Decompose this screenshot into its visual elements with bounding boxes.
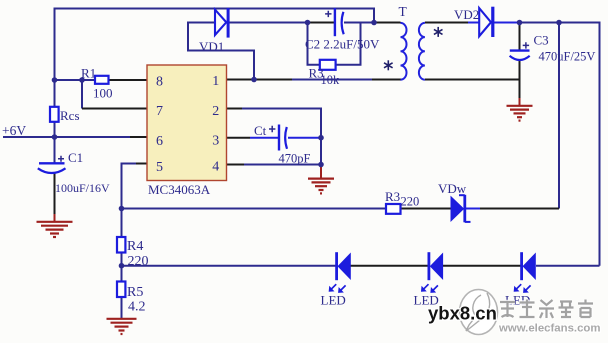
IC U1 MC34063A body — [147, 65, 227, 181]
wire VD1 cathode to C2 — [229, 22, 307, 24]
svg-text:6: 6 — [156, 134, 163, 149]
resistor R5 — [117, 282, 125, 298]
svg-text:C3: C3 — [534, 33, 549, 48]
svg-text:R4: R4 — [127, 239, 143, 254]
resistor Rcs — [50, 107, 59, 122]
capacitor C2 — [325, 8, 344, 36]
svg-text:2: 2 — [212, 104, 219, 119]
svg-text:www.elecfans.com: www.elecfans.com — [498, 323, 601, 335]
ground under C3 — [507, 106, 533, 121]
wire pin 7 branch — [81, 80, 83, 109]
svg-text:Rcs: Rcs — [60, 108, 80, 123]
wire LED row — [122, 265, 337, 267]
svg-text:LED: LED — [321, 293, 346, 308]
transformer T secondary winding — [419, 23, 425, 80]
LED D3 — [515, 252, 536, 292]
svg-text:R3: R3 — [385, 189, 400, 204]
svg-text:220: 220 — [128, 254, 149, 269]
svg-text:C2 2.2uF/50V: C2 2.2uF/50V — [305, 37, 380, 52]
wire primary top — [374, 22, 401, 24]
diode VD2 — [479, 7, 493, 37]
wire secondary top to VD2 — [425, 22, 468, 24]
wire left rail — [54, 8, 56, 138]
wire pin 3 to Ct — [226, 137, 250, 139]
resistor R4 — [117, 237, 125, 253]
svg-text:T: T — [399, 4, 408, 19]
ground under C1 — [37, 222, 73, 237]
svg-text:R5: R5 — [127, 285, 143, 300]
wire pin 5 to node — [135, 163, 147, 165]
svg-text:470uF/25V: 470uF/25V — [539, 50, 596, 64]
wire VD1 clamp loop — [188, 23, 254, 80]
wire C3 node to right rail — [519, 23, 600, 266]
svg-text:3: 3 — [212, 134, 219, 149]
wire secondary bottom — [425, 79, 519, 81]
wire pin 1 row to transformer primary bottom — [226, 79, 292, 81]
capacitor C3 — [510, 42, 530, 60]
svg-text:+6V: +6V — [2, 123, 26, 138]
svg-text:8: 8 — [156, 75, 163, 90]
wire left node column x121 — [121, 209, 123, 319]
wire C3 bottom lead — [519, 59, 521, 98]
svg-text:MC34063A: MC34063A — [148, 182, 211, 197]
svg-text:10k: 10k — [321, 73, 341, 87]
wire C1 bottom lead — [54, 172, 56, 214]
wire Ct node down to pin4 row — [320, 138, 322, 165]
svg-text:4.2: 4.2 — [128, 300, 146, 315]
svg-text:R1: R1 — [81, 66, 96, 81]
secondary dot mark — [434, 27, 443, 37]
watermark logo circle — [460, 290, 498, 335]
capacitor C1 — [38, 156, 66, 173]
wire top rail — [55, 9, 375, 23]
svg-text:VD1: VD1 — [199, 39, 224, 54]
ground under R5 — [107, 319, 137, 334]
svg-text:C1: C1 — [68, 150, 83, 165]
wire R2 parallel loop — [308, 23, 321, 65]
svg-text:VDw: VDw — [438, 181, 467, 196]
svg-text:470pF: 470pF — [279, 152, 311, 166]
svg-text:100: 100 — [93, 86, 113, 101]
capacitor Ct — [269, 125, 287, 151]
svg-text:220: 220 — [401, 195, 420, 209]
svg-text:Ct: Ct — [254, 123, 267, 138]
wire ground stem pin4 node — [320, 165, 322, 179]
wire Ct right plate to node — [288, 137, 321, 139]
svg-text:100uF/16V: 100uF/16V — [55, 181, 110, 195]
wire C2 right to primary node — [344, 22, 374, 24]
wire +6V row to pin 6 — [3, 136, 130, 138]
diode VDw zener — [451, 195, 471, 223]
svg-text:4: 4 — [212, 160, 219, 175]
svg-text:7: 7 — [156, 104, 163, 119]
wire C1 top lead — [54, 137, 56, 163]
diode VD1 — [215, 8, 228, 38]
LED D1 — [330, 252, 351, 292]
resistor R2 10k — [320, 60, 336, 70]
primary dot mark — [384, 60, 393, 70]
wire R1 row pin 8 — [55, 79, 97, 81]
wire VDw row — [122, 208, 387, 210]
wire C3 top lead — [519, 23, 521, 51]
junction node dots — [52, 20, 562, 269]
wire pin 4 — [226, 164, 244, 166]
resistor R1 — [95, 76, 109, 84]
svg-text:VD2: VD2 — [454, 7, 479, 22]
ground under pin4 node — [308, 179, 334, 194]
svg-text:5: 5 — [156, 160, 163, 175]
svg-text:ybx8.cn: ybx8.cn — [428, 303, 497, 324]
resistor R3 220 — [386, 204, 401, 214]
LED D2 — [422, 252, 443, 292]
wire pin 2 to Ct node — [226, 108, 242, 110]
transformer T primary winding — [401, 23, 407, 80]
svg-text:1: 1 — [212, 74, 219, 89]
wire C2 left segment — [307, 22, 334, 24]
wire VD2 cathode to C3 node — [493, 22, 519, 24]
wire x559 drop to VDw row — [558, 23, 560, 209]
